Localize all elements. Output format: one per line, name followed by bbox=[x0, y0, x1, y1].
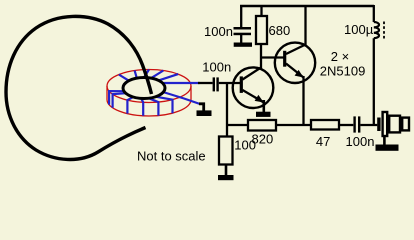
bottom feedback rail bbox=[227, 124, 248, 126]
inductor L1 core (dashed) bbox=[383, 22, 385, 39]
svg-text:100n: 100n bbox=[202, 59, 231, 74]
transformer T1 secondary winding (blue) bbox=[109, 70, 200, 116]
wire: Q2 collector up to rail bbox=[304, 5, 306, 45]
loop antenna wire (single-turn large loop through toroid) bbox=[6, 16, 152, 159]
svg-text:100: 100 bbox=[234, 138, 256, 153]
top supply rail bbox=[240, 5, 374, 8]
svg-text:2 ×: 2 × bbox=[331, 49, 349, 64]
ground (connector) bbox=[376, 145, 399, 151]
Q2 emitter arrow bbox=[295, 70, 304, 78]
resistor R2 820 bbox=[248, 120, 276, 131]
svg-text:2N5109: 2N5109 bbox=[320, 63, 366, 78]
resistor R3 47 bbox=[311, 120, 339, 130]
inductor L1 100µ feed choke bbox=[373, 5, 375, 22]
wire: C3 to connector pin bbox=[360, 124, 377, 126]
winding lead to ground bbox=[163, 92, 200, 104]
capacitor C3 100n (output coupling) bbox=[353, 116, 355, 132]
svg-text:100µ: 100µ bbox=[344, 22, 374, 37]
winding lead to input cap bbox=[163, 82, 200, 84]
wire: toroid upper lead to C1 bbox=[198, 82, 213, 84]
resistor R4 100 bbox=[219, 137, 233, 165]
svg-text:47: 47 bbox=[316, 134, 330, 149]
wire: R3 to C3 bbox=[339, 124, 353, 126]
ground (Q1 emitter) bbox=[256, 112, 271, 117]
wire: toroid lower lead to ground bbox=[199, 104, 204, 111]
transistor Q1 2N5109 bbox=[233, 67, 274, 108]
wire: Q1 collector up to R1 bbox=[260, 44, 262, 69]
wire: R1 top to +rail bbox=[260, 5, 262, 16]
capacitor C1 100n (input coupling) bbox=[213, 77, 215, 91]
ground (C2) bbox=[234, 43, 252, 47]
transistor Q2 2N5109 bbox=[275, 43, 315, 83]
wire: Q2 emitter down to output node bbox=[302, 76, 304, 126]
wire: Q1 emitter to ground bbox=[262, 100, 265, 112]
svg-text:Not to scale: Not to scale bbox=[137, 149, 206, 164]
wire: C1 to Q1 base bbox=[219, 82, 241, 84]
wire: connector shell to ground bbox=[383, 136, 386, 145]
svg-text:680: 680 bbox=[269, 23, 291, 38]
resistor R1 680 bbox=[256, 16, 267, 44]
wire: base node down to bottom rail and R4 bbox=[226, 83, 228, 137]
wire: Q2 base to Q1 collector node bbox=[261, 56, 284, 58]
svg-text:100n: 100n bbox=[346, 134, 375, 149]
svg-text:100n: 100n bbox=[204, 24, 233, 39]
connector J1 coax socket bbox=[377, 118, 380, 132]
ground (R4) bbox=[218, 175, 234, 180]
wire: rail down to C2 bbox=[240, 5, 242, 27]
wire: L1 down to output node bbox=[373, 38, 375, 126]
capacitor C2 100n (supply decoupling) bbox=[234, 27, 252, 30]
transformer T1 inner hole bbox=[123, 78, 165, 99]
ground (toroid lead) bbox=[197, 110, 212, 116]
Q1 emitter arrow bbox=[255, 95, 264, 103]
wire: R2 to Q2 emitter node to R3 bbox=[276, 124, 311, 126]
wire: R4 to ground bbox=[225, 165, 228, 176]
transformer T1 toroid core (red outline) bbox=[107, 70, 191, 117]
